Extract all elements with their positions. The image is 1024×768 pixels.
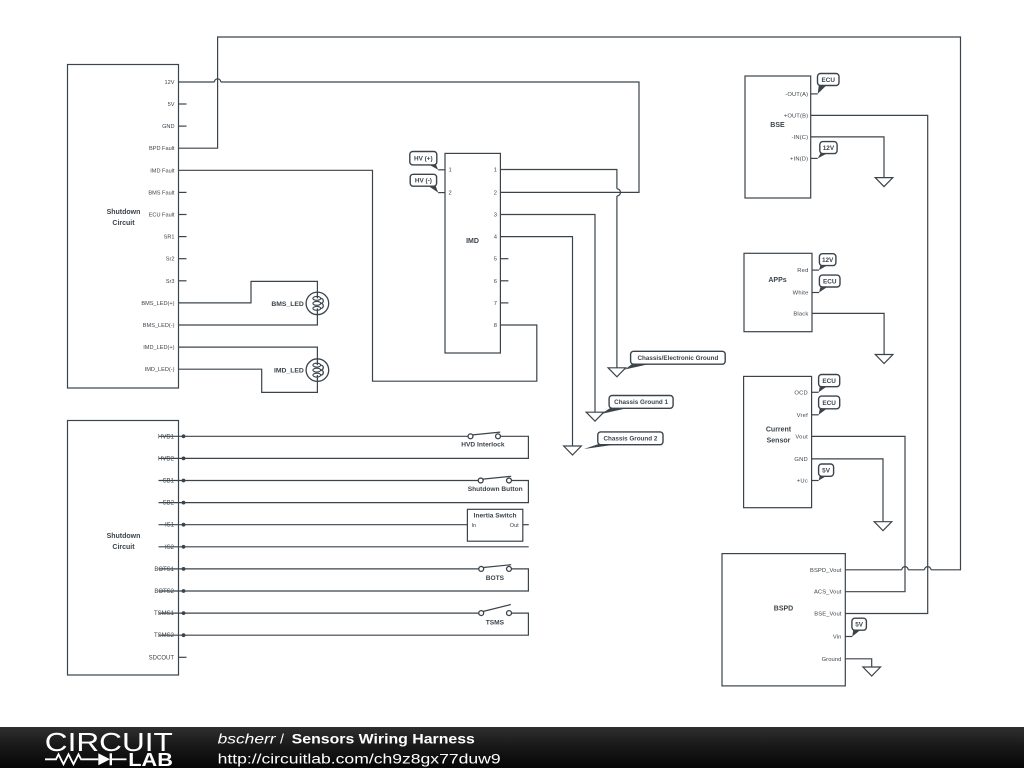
wire hop 12V over BPD vertical — [214, 79, 220, 82]
wire hop BSPD_Vout over BSE vertical — [925, 567, 931, 570]
U1 pin stub BMS Fault — [179, 191, 187, 193]
ground at APPs Black — [875, 355, 893, 364]
wire SB1 row — [159, 480, 479, 482]
svg-text:Vref: Vref — [797, 413, 809, 419]
wire HVD1 row — [159, 435, 468, 437]
U1 pin stub Sr2 — [179, 258, 187, 260]
flag 5V at Current Sensor +Uc — [812, 464, 834, 481]
svg-text:Inertia Switch: Inertia Switch — [474, 513, 517, 520]
wire IS1 row to inertia switch — [159, 524, 468, 526]
block BSE U3 — [745, 76, 811, 198]
U1 pin stub ECU Fault — [179, 214, 187, 216]
svg-text:SB2: SB2 — [163, 501, 175, 507]
svg-text:BMS_LED(-): BMS_LED(-) — [143, 323, 175, 329]
flag 5V at BSPD Vin — [845, 618, 866, 636]
lamp BMS_LED — [271, 292, 328, 315]
flag ECU at APPs White — [812, 275, 840, 292]
svg-text:TSMS1: TSMS1 — [154, 611, 175, 617]
svg-text:-IN(C): -IN(C) — [792, 135, 809, 141]
svg-text:Sensor: Sensor — [767, 438, 791, 445]
svg-text:/: / — [280, 731, 284, 747]
U2 pin stub 6 — [500, 280, 508, 282]
block Shutdown Circuit U1 (top-left) — [68, 65, 179, 389]
wire Current Sensor Vout to BSPD ACS_Vout — [812, 436, 905, 591]
flag 12V at APPs Red — [812, 254, 836, 270]
svg-text:3: 3 — [494, 213, 497, 219]
wire SB loop back to SB2 — [159, 481, 529, 503]
junction dot SB2 — [182, 501, 186, 505]
wire BOTS loop back to BOTS2 — [159, 569, 529, 591]
switch BOTS SW3 — [479, 565, 512, 582]
svg-text:Shutdown: Shutdown — [107, 533, 141, 540]
svg-text:Sr2: Sr2 — [166, 257, 175, 263]
svg-text:BSE_Vout: BSE_Vout — [814, 612, 842, 618]
svg-text:GND: GND — [794, 457, 808, 463]
svg-text:BSE: BSE — [770, 122, 785, 129]
svg-text:+Uc: +Uc — [797, 479, 808, 485]
flag ECU at Current Sensor Vref — [812, 396, 840, 415]
svg-text:IMD: IMD — [466, 238, 479, 245]
wire BSE -IN(C) to ground — [811, 137, 884, 178]
flag 12V at BSE +IN(D) — [811, 142, 837, 159]
flag ECU at BSE -OUT(A) — [811, 74, 839, 94]
CircuitLab logo resistor zigzag — [45, 754, 98, 764]
block IMD U2 — [445, 153, 500, 353]
svg-text:Black: Black — [793, 311, 808, 317]
node label Chassis/Electronic Ground — [625, 351, 725, 369]
svg-text:2: 2 — [494, 190, 497, 196]
U1 pin stub GND — [179, 125, 187, 127]
svg-text:SR1: SR1 — [164, 235, 175, 241]
ground chassis 1 — [586, 412, 604, 421]
node label Chassis Ground 1 — [601, 396, 673, 415]
svg-text:White: White — [793, 291, 809, 297]
block APPs U4 — [744, 253, 812, 331]
svg-text:BPD Fault: BPD Fault — [149, 146, 175, 152]
svg-text:SB1: SB1 — [163, 479, 175, 485]
svg-text:6: 6 — [494, 279, 497, 285]
svg-text:http://circuitlab.com/ch9z8gx7: http://circuitlab.com/ch9z8gx77duw9 — [218, 751, 501, 767]
svg-text:ECU: ECU — [822, 77, 836, 84]
switch TSMS SW4 — [479, 605, 512, 627]
svg-text:APPs: APPs — [768, 277, 786, 284]
svg-text:IMD_LED: IMD_LED — [274, 368, 304, 375]
ground chassis/electronic — [608, 368, 626, 377]
junction dot IS2 — [182, 545, 186, 549]
junction dot IS1 — [182, 523, 186, 527]
svg-text:Circuit: Circuit — [112, 220, 135, 227]
block Current Sensor U5 — [744, 376, 812, 507]
wire IMD pin 1 to chassis/electronic ground — [500, 170, 617, 368]
junction dot HVD1 — [182, 434, 186, 438]
junction dot HVD2 — [182, 457, 186, 461]
node label Chassis Ground 2 — [584, 432, 663, 449]
svg-text:BSPD: BSPD — [774, 606, 793, 613]
svg-text:BOTS2: BOTS2 — [154, 589, 174, 595]
svg-text:OCD: OCD — [794, 390, 808, 396]
block Shutdown Circuit U7 (bottom-left) — [68, 421, 179, 676]
svg-text:1: 1 — [494, 168, 497, 174]
svg-text:Vin: Vin — [833, 635, 842, 641]
svg-text:BSPD_Vout: BSPD_Vout — [810, 568, 842, 574]
flag HV (+) at IMD pin 1 — [410, 152, 445, 170]
switch Shutdown Button SW2 — [468, 476, 523, 493]
block BSPD U6 — [722, 554, 845, 686]
svg-text:5: 5 — [494, 257, 497, 263]
svg-text:BOTS1: BOTS1 — [154, 567, 174, 573]
svg-text:TSMS2: TSMS2 — [154, 633, 175, 639]
ground at BSPD Ground — [863, 667, 881, 676]
inertia switch U8 — [467, 509, 522, 541]
svg-text:Shutdown Button: Shutdown Button — [468, 486, 523, 493]
svg-text:+OUT(B): +OUT(B) — [784, 113, 808, 119]
svg-text:LAB: LAB — [128, 750, 173, 768]
svg-text:ACS_Vout: ACS_Vout — [814, 590, 842, 596]
svg-text:TSMS: TSMS — [486, 620, 505, 627]
svg-text:2: 2 — [449, 190, 452, 196]
svg-text:HVD1: HVD1 — [158, 434, 175, 440]
wire BMS_LED(-) from U1 to lamp — [179, 314, 318, 325]
wire hop IMD pin1 vertical over pin2 wire — [617, 189, 621, 196]
U1 pin stub 5V — [179, 103, 187, 105]
svg-text:ECU: ECU — [822, 400, 836, 407]
svg-text:Chassis Ground 1: Chassis Ground 1 — [614, 399, 668, 406]
svg-text:HV (+): HV (+) — [414, 156, 433, 163]
U2 pin stub 5 — [500, 258, 508, 260]
junction dot BOTS1 — [182, 567, 186, 571]
svg-text:Current: Current — [766, 427, 792, 434]
svg-text:Vout: Vout — [795, 434, 808, 440]
svg-text:HVD2: HVD2 — [158, 456, 175, 462]
svg-text:8: 8 — [494, 323, 497, 329]
flag ECU at Current Sensor OCD — [812, 375, 840, 393]
svg-text:bscherr: bscherr — [218, 731, 278, 747]
wire APPs Black to ground — [812, 313, 884, 354]
wire BSPD Ground to ground — [845, 659, 871, 667]
wire TSMS1 row — [159, 612, 479, 614]
ground at BSE -IN(C) — [875, 178, 893, 187]
svg-text:Chassis Ground 2: Chassis Ground 2 — [603, 436, 657, 443]
svg-text:ECU Fault: ECU Fault — [149, 213, 175, 219]
svg-text:In: In — [472, 523, 477, 529]
wire IMD Fault from U1 to IMD pin 8 — [179, 170, 537, 381]
svg-text:Out: Out — [510, 523, 519, 529]
svg-text:Circuit: Circuit — [112, 544, 135, 551]
svg-text:BMS_LED(+): BMS_LED(+) — [141, 301, 174, 307]
ground at Current Sensor GND — [874, 522, 892, 531]
wire inertia switch Out stub — [523, 524, 529, 526]
svg-text:GND: GND — [162, 124, 174, 130]
svg-text:BMS Fault: BMS Fault — [148, 190, 175, 196]
wire HVD loop back to HVD2 — [159, 436, 529, 458]
svg-text:IMD Fault: IMD Fault — [150, 168, 175, 174]
svg-text:Shutdown: Shutdown — [107, 209, 141, 216]
wire BOTS1 row — [159, 568, 479, 570]
U7 pin stub SDCOUT — [179, 656, 187, 658]
svg-text:IMD_LED(-): IMD_LED(-) — [145, 367, 175, 373]
svg-text:BOTS: BOTS — [486, 575, 505, 582]
switch HVD Interlock SW1 — [461, 432, 505, 448]
junction dot BOTS2 — [182, 589, 186, 593]
wire Current Sensor GND to ground — [812, 459, 883, 522]
junction dot SB1 — [182, 479, 186, 483]
svg-text:12V: 12V — [165, 80, 175, 86]
svg-text:Sensors Wiring Harness: Sensors Wiring Harness — [292, 731, 475, 747]
svg-text:-OUT(A): -OUT(A) — [785, 92, 808, 98]
svg-text:5V: 5V — [168, 102, 175, 108]
wire 12V from U1 to IMD pin 2 — [179, 82, 640, 192]
svg-text:5V: 5V — [822, 467, 831, 474]
svg-text:ECU: ECU — [822, 378, 836, 385]
svg-text:BMS_LED: BMS_LED — [271, 301, 304, 308]
CircuitLab logo diode — [98, 753, 110, 765]
wire IMD pin 3 to chassis ground 1 — [500, 215, 595, 413]
wire BMS_LED(+) from U1 to lamp — [179, 281, 318, 303]
svg-text:SDCOUT: SDCOUT — [149, 655, 175, 661]
svg-text:+IN(D): +IN(D) — [790, 156, 808, 162]
U2 pin stub 7 — [500, 302, 508, 304]
wire IMD_LED(+) from U1 to lamp — [179, 347, 318, 359]
svg-text:Chassis/Electronic Ground: Chassis/Electronic Ground — [637, 355, 718, 362]
svg-text:Sr3: Sr3 — [166, 279, 175, 285]
wire BSE +OUT(B) to BSPD BSE_Vout — [811, 115, 928, 613]
svg-text:12V: 12V — [823, 145, 835, 152]
junction dot TSMS1 — [182, 611, 186, 615]
svg-text:IS2: IS2 — [165, 545, 175, 551]
svg-text:IMD_LED(+): IMD_LED(+) — [143, 345, 174, 351]
svg-text:HVD Interlock: HVD Interlock — [461, 442, 505, 449]
svg-text:Ground: Ground — [822, 657, 842, 663]
lamp IMD_LED — [274, 359, 329, 382]
wire hop BSPD_Vout over ACS vertical — [902, 567, 908, 570]
junction dot TSMS2 — [182, 633, 186, 637]
ground chassis 2 — [564, 446, 582, 455]
svg-text:HV (-): HV (-) — [415, 178, 432, 185]
wire TSMS loop back to TSMS2 — [159, 613, 529, 635]
svg-text:1: 1 — [449, 168, 452, 174]
wire IS2 row — [159, 546, 529, 548]
svg-text:Red: Red — [797, 268, 808, 274]
flag HV (-) at IMD pin 2 — [410, 174, 445, 192]
svg-text:12V: 12V — [822, 257, 834, 264]
U1 pin stub Sr3 — [179, 280, 187, 282]
U1 pin stub SR1 — [179, 236, 187, 238]
svg-text:7: 7 — [494, 301, 497, 307]
wire IMD_LED(-) from U1 to lamp — [179, 369, 318, 392]
wire IMD pin 4 to chassis ground 2 — [500, 237, 572, 446]
svg-text:5V: 5V — [855, 622, 864, 629]
svg-text:ECU: ECU — [823, 278, 837, 285]
wire BPD Fault from U1 via top to BSPD_Vout — [179, 37, 961, 570]
svg-text:IS1: IS1 — [165, 523, 175, 529]
